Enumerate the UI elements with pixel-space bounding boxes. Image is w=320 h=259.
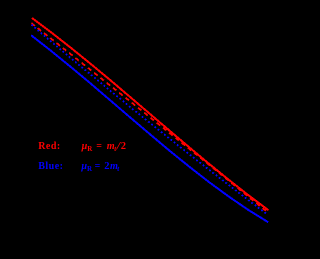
svg-text:=: = [96, 141, 102, 152]
svg-text:R: R [87, 165, 93, 173]
curve red solid (mu_R = m_t/2, central) [32, 18, 269, 210]
curve blue solid (mu_R = 2 m_t) [31, 35, 268, 222]
curve red dashed [31, 23, 267, 212]
svg-text:2: 2 [121, 141, 126, 152]
svg-text:t: t [117, 165, 120, 173]
svg-text:2: 2 [104, 161, 109, 172]
svg-text:R: R [87, 145, 93, 153]
legend line 1: Red: mu_R = m_t/2 [38, 138, 126, 153]
svg-text:Red:: Red: [38, 141, 61, 152]
svg-text:=: = [95, 161, 101, 172]
curve blue dotted [31, 25, 267, 215]
legend line 2: Blue: mu_R = 2 m_t [38, 161, 120, 173]
svg-text:Blue:: Blue: [38, 161, 63, 172]
